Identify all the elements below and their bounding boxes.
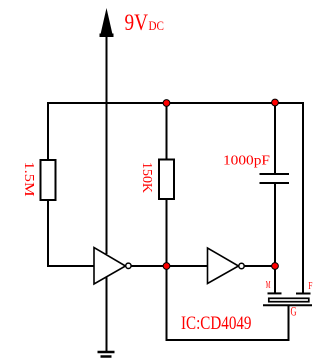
wire VCC vertical: [106, 36, 108, 254]
node junction U2 out: [272, 263, 279, 270]
svg-text:M: M: [266, 280, 271, 291]
wire right rail: [302, 102, 304, 293]
resistor R1 1.5M: [41, 160, 56, 200]
wire 150K top lead: [166, 103, 168, 160]
wire U2 output: [245, 265, 276, 267]
wire piezo G lead: [288, 305, 290, 341]
op-amp U2 inverter: [208, 248, 245, 284]
svg-text:150K: 150K: [139, 162, 154, 193]
label 9VDC: [125, 10, 165, 36]
svg-text:IC:CD4049: IC:CD4049: [181, 313, 252, 334]
power supply arrow 9VDC: [100, 8, 114, 37]
piezo transducer BZ1: [263, 293, 312, 305]
ground: [98, 352, 115, 357]
svg-text:1000pF: 1000pF: [223, 154, 270, 169]
node junction U1 out: [163, 263, 170, 270]
node junction top cap: [272, 99, 279, 106]
wire cap top lead: [274, 103, 276, 174]
wire feedback drop: [166, 266, 168, 341]
wire to U1 input: [47, 265, 94, 267]
wire U1 ground pin: [106, 277, 108, 352]
capacitor C1 1000pF: [260, 174, 290, 183]
wire bottom run: [166, 339, 289, 341]
svg-text:9V: 9V: [125, 10, 149, 36]
svg-text:1.5M: 1.5M: [21, 162, 36, 198]
node junction top 150K: [163, 100, 170, 107]
wire U1 out to U2 in: [167, 265, 208, 267]
svg-text:G: G: [291, 305, 297, 319]
wire top rail: [48, 102, 303, 104]
wire left drop: [47, 102, 49, 160]
resistor R2 150K: [159, 160, 174, 200]
op-amp U1 inverter: [94, 248, 131, 285]
wire left drop lower: [47, 200, 49, 267]
svg-text:DC: DC: [149, 18, 165, 33]
wire cap bottom lead: [274, 183, 276, 293]
wire U1 output: [132, 265, 168, 267]
wire 150K bottom lead: [166, 199, 168, 266]
svg-text:F: F: [308, 281, 312, 292]
